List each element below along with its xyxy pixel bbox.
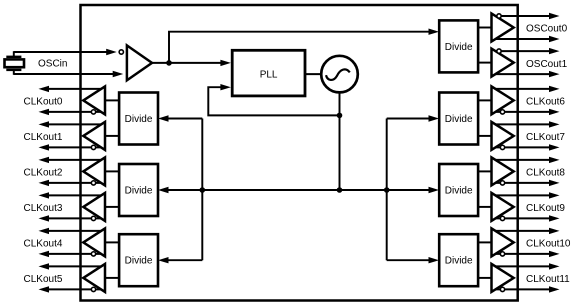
output buffer CLKout9 [492,193,514,221]
arrowhead into right Divide 3 [429,257,440,263]
svg-text:Divide: Divide [125,186,153,197]
OSCout1 buffer inverting bubble [497,49,501,53]
wire CLKout5 complement output [49,288,102,290]
wire OSCout0 true output [495,15,549,17]
svg-text:CLKout6: CLKout6 [526,97,565,108]
wire OSCout0 complement output [495,38,549,40]
arrowhead CLKout10 complement output [549,251,560,257]
wire feed left Divide 3 [169,259,203,261]
CLKout10 buffer inverting bubble [500,252,504,256]
wire Divide to CLKout5 buffer [105,277,120,279]
wire CLKout9 complement output [495,217,549,219]
wire feed left Divide 1 [169,118,203,120]
arrowhead CLKout11 true output [549,263,560,269]
svg-text:OSCin: OSCin [38,59,67,70]
arrowhead CLKout7 true output [549,121,560,127]
arrowhead CLKout5 complement output [39,286,50,292]
wire Divide to CLKout1 buffer [105,135,120,137]
wire Divide to OSCout1 buffer [477,62,492,64]
output buffer CLKout0 [83,86,105,114]
svg-text:Divide: Divide [125,256,153,267]
arrowhead into PLL reference input [220,60,231,66]
junction right branch [384,187,390,193]
CLKout2 buffer inverting bubble [91,181,95,185]
output buffer CLKout3 [83,193,105,221]
arrowhead OSCout0 complement output [549,36,560,42]
wire CLKout5 true output [49,265,102,267]
wire CLKout3 true output [49,194,102,196]
arrowhead CLKout2 complement output [39,180,50,186]
svg-text:CLKout5: CLKout5 [24,274,63,285]
CLKout1 buffer inverting bubble [91,145,95,149]
arrowhead into left Divide 3 [158,257,169,263]
wire CLKout4 true output [49,230,102,232]
arrowhead into left Divide 2 [158,187,169,193]
wire PLL feedback input [208,87,339,115]
arrowhead CLKout1 true output [39,121,50,127]
arrowhead CLKout5 true output [39,263,50,269]
wire CLKout10 true output [495,230,549,232]
output buffer CLKout6 [492,86,514,114]
arrowhead into OSC Divide [429,29,440,35]
arrowhead OSCout0 true output [549,13,560,19]
wire CLKout6 complement output [495,111,549,113]
wire CLKout7 true output [495,123,549,125]
wire CLKout4 complement output [49,253,102,255]
svg-text:CLKout10: CLKout10 [526,239,571,250]
divider block left Divide 3 [119,234,158,286]
arrowhead into left Divide 1 [158,115,169,121]
crystal X1 top lead [13,51,15,57]
wire Divide to CLKout11 buffer [477,277,492,279]
wire CLKout0 complement output [49,111,102,113]
wire CLKout8 complement output [495,182,549,184]
arrowhead CLKout6 true output [549,86,560,92]
wire Divide to CLKout10 buffer [477,241,492,243]
PLL block [232,50,305,96]
wire Divide to CLKout2 buffer [105,170,120,172]
arrowhead CLKout2 true output [39,157,50,163]
svg-text:OSCout1: OSCout1 [526,59,568,70]
wire CLKout1 true output [49,123,102,125]
OSCout0 buffer inverting bubble [497,14,501,18]
CLKout0 buffer inverting bubble [91,110,95,114]
svg-text:Divide: Divide [125,114,153,125]
wire CLKout7 complement output [495,146,549,148]
arrowhead PLL feedback into PLL [220,84,231,90]
divider block OSC Divide [439,20,478,72]
right branch vertical wire [386,119,388,261]
arrowhead CLKout8 true output [549,157,560,163]
wire Divide to CLKout9 buffer [477,206,492,208]
arrowhead CLKout0 complement output [39,109,50,115]
wire Divide to CLKout8 buffer [477,170,492,172]
wire Divide to OSCout0 buffer [477,27,492,29]
output buffer CLKout5 [83,264,105,292]
CLKout11 buffer inverting bubble [500,287,504,291]
node A junction on U1 output [166,60,172,66]
arrowhead CLKout9 complement output [549,215,560,221]
output buffer CLKout7 [492,122,514,150]
svg-text:OSCout0: OSCout0 [526,24,568,35]
wire CLKout6 true output [495,88,549,90]
divider block left Divide 1 [119,93,158,145]
svg-text:PLL: PLL [260,70,278,81]
wire OSCout1 true output [495,50,549,52]
VCO sine symbol [326,69,350,80]
svg-text:CLKout8: CLKout8 [526,168,565,179]
arrowhead CLKout6 complement output [549,109,560,115]
arrowhead into right Divide 2 [429,187,440,193]
arrowhead CLKout8 complement output [549,180,560,186]
wire Divide to CLKout7 buffer [477,135,492,137]
output buffer CLKout1 [83,122,105,150]
svg-text:Divide: Divide [445,186,473,197]
output buffer OSCout1 [492,49,514,77]
chip boundary [81,5,518,301]
CLKout9 buffer inverting bubble [500,216,504,220]
CLKout8 buffer inverting bubble [500,181,504,185]
arrowhead CLKout3 true output [39,192,50,198]
wire PLL output to VCO [305,73,322,75]
svg-text:Divide: Divide [445,42,473,53]
divider block right Divide 3 [439,234,478,286]
output buffer CLKout11 [492,264,514,292]
svg-text:CLKout11: CLKout11 [526,274,570,285]
arrowhead CLKout4 complement output [39,251,50,257]
svg-text:CLKout0: CLKout0 [24,97,63,108]
crystal X1 body [5,59,25,67]
wire VCO output down to distribution line [339,90,341,190]
junction VCO column [337,187,343,193]
main distribution wire (VCO to dividers) [169,189,429,191]
wire OSCout1 complement output [495,73,549,75]
wire Divide to CLKout0 buffer [105,99,120,101]
arrowhead OSCout1 true output [549,48,560,54]
wire feed right Divide 1 [387,118,429,120]
junction VCO feedback tap [337,113,343,119]
arrowhead CLKout3 complement output [39,215,50,221]
svg-text:CLKout7: CLKout7 [526,132,565,143]
svg-text:CLKout2: CLKout2 [24,168,63,179]
CLKout5 buffer inverting bubble [91,287,95,291]
wire CLKout11 true output [495,265,549,267]
output buffer CLKout8 [492,157,514,185]
output buffer CLKout10 [492,228,514,256]
wire Divide to CLKout4 buffer [105,241,120,243]
junction left branch [200,187,206,193]
wire CLKout9 true output [495,194,549,196]
svg-text:CLKout4: CLKout4 [24,239,63,250]
wire OSCin+ (top) [14,51,107,53]
output buffer CLKout4 [83,228,105,256]
svg-text:CLKout9: CLKout9 [526,203,565,214]
arrowhead OSCin- into input buffer [113,71,124,77]
wire CLKout3 complement output [49,217,102,219]
crystal X1 bottom plate [6,69,21,71]
divider block right Divide 2 [439,164,478,216]
wire Divide to CLKout3 buffer [105,206,120,208]
input buffer U1 (OSCin differential buffer) [127,45,152,80]
wire CLKout2 true output [49,159,102,161]
wire CLKout10 complement output [495,253,549,255]
arrowhead CLKout7 complement output [549,144,560,150]
arrowhead CLKout11 complement output [549,286,560,292]
crystal X1 top plate [6,56,21,58]
arrowhead CLKout4 true output [39,228,50,234]
output buffer CLKout2 [83,157,105,185]
arrowhead CLKout1 complement output [39,144,50,150]
wire CLKout1 complement output [49,146,102,148]
oscillator VCO circle [321,56,358,93]
arrowhead CLKout0 true output [39,86,50,92]
arrowhead CLKout9 true output [549,192,560,198]
wire CLKout11 complement output [495,288,549,290]
input buffer U1 inverting-input bubble [119,50,123,54]
wire CLKout0 true output [49,88,102,90]
arrowhead CLKout10 true output [549,228,560,234]
svg-text:CLKout3: CLKout3 [24,203,63,214]
svg-text:Divide: Divide [445,256,473,267]
output buffer OSCout0 [492,14,514,42]
wire feed right Divide 3 [387,259,429,261]
arrowhead into right Divide 1 [429,115,440,121]
CLKout6 buffer inverting bubble [500,110,504,114]
wire node A up to OSC Divide feed [169,32,430,63]
svg-text:CLKout1: CLKout1 [24,132,63,143]
CLKout3 buffer inverting bubble [91,216,95,220]
arrowhead OSCout1 complement output [549,71,560,77]
wire CLKout8 true output [495,159,549,161]
arrowhead OSCin+ into input buffer [106,49,117,55]
CLKout7 buffer inverting bubble [500,145,504,149]
left branch vertical wire [201,119,203,261]
svg-text:Divide: Divide [445,114,473,125]
crystal X1 bottom lead [13,70,15,75]
divider block right Divide 1 [439,93,478,145]
divider block left Divide 2 [119,164,158,216]
wire CLKout2 complement output [49,182,102,184]
wire OSCin- (bottom) [14,73,113,75]
wire Divide to CLKout6 buffer [477,99,492,101]
CLKout4 buffer inverting bubble [91,252,95,256]
wire U1 output to PLL [152,62,222,64]
